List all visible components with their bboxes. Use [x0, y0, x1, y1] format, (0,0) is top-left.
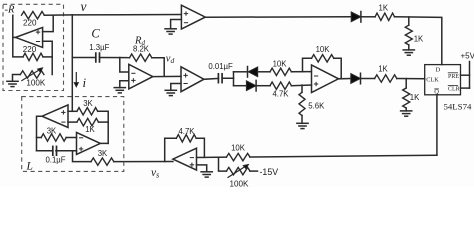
svg-text:-R: -R	[5, 5, 16, 16]
wire 1K pulldown D to ground	[408, 45, 410, 50]
wire U3 + input to ground	[120, 81, 129, 88]
svg-text:1K: 1K	[378, 65, 388, 74]
svg-text:-15V: -15V	[260, 167, 279, 177]
wire 220 bottom right lead	[43, 56, 52, 58]
wire 3K left to A4 - input	[66, 137, 76, 139]
wire +5V vertical	[469, 62, 471, 89]
svg-text:100K: 100K	[26, 78, 46, 87]
wire 4.7K to U5 + input	[291, 84, 311, 87]
wire top diode to 10K	[258, 71, 270, 73]
wire diode to 1K CLK row	[361, 78, 375, 80]
svg-text:10K: 10K	[316, 45, 331, 54]
op-amp U1 (-R block)	[16, 27, 43, 47]
resistor 3K (L left)	[41, 134, 66, 141]
diode D3 pointing right (CLK row)	[351, 74, 361, 84]
diode D4 pointing right (D row)	[351, 12, 361, 22]
ground U6 + input	[201, 171, 212, 173]
wire junction down to 1K pulldown D	[408, 17, 410, 25]
svg-text:L: L	[26, 161, 33, 173]
current arrow i	[75, 73, 77, 84]
svg-text:0.01µF: 0.01µF	[208, 62, 233, 71]
wire + node step down	[73, 151, 92, 162]
ground U3 + input	[114, 87, 125, 89]
resistor 3K (L top)	[77, 108, 98, 115]
wire U2 output row (D row)	[205, 16, 351, 18]
wire U1 output to feedback node	[13, 36, 16, 38]
ground CLK pulldown	[401, 110, 412, 112]
wire A4 output to bus	[100, 142, 108, 144]
svg-text:220: 220	[23, 45, 37, 54]
wire to top diode	[234, 71, 248, 73]
wire 4.7K down to - input	[196, 138, 204, 157]
wire U3 output to U4	[153, 75, 181, 77]
svg-text:1.3µF: 1.3µF	[89, 43, 109, 52]
wire U6 output to L block	[114, 161, 173, 163]
op-amp U5 comparator	[312, 65, 339, 93]
diode D2 pointing right	[246, 81, 256, 91]
capacitor 0.1uF	[52, 146, 54, 155]
op-amp U3 current sense	[129, 64, 153, 89]
wire v horizontal	[44, 14, 181, 17]
wire feedback bottom long	[250, 155, 437, 157]
resistor 220 top	[22, 12, 45, 19]
svg-text:CLK: CLK	[426, 76, 439, 83]
resistor 1K CLK row	[375, 75, 397, 82]
negative resistance block -R dashed box	[3, 4, 64, 90]
capacitor 0.01uF	[217, 74, 219, 83]
svg-text:+5V: +5V	[461, 52, 474, 61]
resistor 4.7K bottom limiter	[270, 82, 291, 89]
svg-text:4.7K: 4.7K	[178, 127, 195, 136]
wire U4 output	[204, 77, 219, 80]
wire - input stub	[43, 41, 53, 74]
wire capacitor to Rd node	[100, 57, 130, 59]
wire left vertical feedback	[13, 15, 23, 57]
resistor Rd 8.2K feedback	[130, 54, 152, 61]
wire 5.6K to ground	[301, 116, 303, 124]
flip-flop 54LS74 box	[425, 65, 461, 95]
ground pot (-R block)	[7, 80, 18, 82]
svg-text:5.6K: 5.6K	[308, 102, 325, 111]
resistor 10K feedback bottom	[226, 153, 250, 160]
svg-text:v: v	[81, 0, 87, 14]
resistor 1K D row	[375, 13, 394, 20]
wire - input drop	[120, 58, 129, 73]
wire feedback right down	[334, 58, 341, 78]
op-amp U4 buffer	[181, 67, 204, 92]
svg-text:i: i	[83, 75, 87, 90]
resistor 4.7K feedback U6	[176, 135, 196, 142]
resistor 1K pulldown CLK	[403, 88, 410, 108]
svg-text:4.7K: 4.7K	[272, 89, 289, 98]
svg-text:100K: 100K	[230, 179, 250, 187]
wire branch down to 100K pot	[219, 157, 227, 171]
resistor 10K feedback U5	[312, 55, 334, 62]
ground U2 - input	[165, 28, 176, 30]
wire A3 + input	[68, 110, 77, 112]
diode D1 pointing left	[247, 67, 249, 78]
wire U5 output	[339, 78, 351, 80]
svg-text:10K: 10K	[273, 59, 288, 68]
wire cap to A4 + input	[56, 150, 77, 152]
resistor 1K pulldown D	[405, 25, 412, 45]
resistor 10K top limiter	[270, 68, 291, 75]
svg-text:1K: 1K	[410, 93, 420, 102]
svg-text:vd: vd	[166, 54, 175, 66]
wire CLR stub	[461, 87, 470, 89]
svg-text:PRE: PRE	[448, 74, 459, 80]
wire to capacitor 0.1uF	[37, 150, 53, 152]
wire v branch vertical down	[71, 15, 73, 111]
svg-text:8.2K: 8.2K	[133, 45, 150, 54]
resistor 5.6K to ground	[299, 92, 305, 115]
ground U4 - input	[165, 89, 176, 91]
wire to capacitor C	[72, 57, 96, 59]
svg-text:CLR: CLR	[448, 87, 460, 93]
wire diode to 1K D row	[361, 16, 375, 18]
wire bottom diode branch	[234, 85, 247, 87]
wire 3K to bus	[98, 111, 109, 143]
wire + input branch down to 5.6K	[301, 85, 303, 92]
ground 5.6K	[297, 122, 308, 124]
wire feedback up left	[303, 58, 312, 71]
wire junction down to 1K pulldown CLK	[405, 79, 407, 88]
svg-text:54LS74: 54LS74	[444, 101, 472, 111]
op-amp A4 (L block bottom)	[77, 132, 101, 154]
potentiometer 100K (-R block)	[20, 71, 44, 78]
resistor 3K (L bottom out)	[91, 158, 114, 165]
svg-text:C: C	[91, 27, 100, 41]
wire pot left lead	[13, 75, 21, 82]
op-amp A3 (L block top)	[42, 105, 68, 128]
wire A3 - input	[68, 121, 77, 123]
wire A3 output down	[37, 116, 43, 151]
ground D pulldown	[403, 49, 414, 51]
svg-text:0.1µF: 0.1µF	[45, 155, 65, 164]
wire U6 + input to ground	[197, 165, 207, 172]
svg-text:D: D	[435, 67, 440, 74]
potentiometer 100K offset	[226, 167, 250, 174]
resistor 220 bottom	[23, 53, 43, 60]
wire feedback up	[165, 138, 177, 161]
wire U2 - input to ground	[171, 20, 182, 29]
wire 1K to bus	[99, 121, 109, 123]
wire 10K to vs amp - input	[197, 156, 227, 158]
wire PRE stub	[461, 74, 470, 76]
wire 1K pulldown to ground	[405, 108, 407, 111]
wire 1K to D pin corner	[395, 17, 442, 65]
resistor 1K (L block)	[77, 118, 99, 125]
svg-text:1K: 1K	[379, 4, 389, 13]
wire bottom diode to 4.7K	[257, 85, 270, 87]
svg-text:1K: 1K	[414, 35, 424, 44]
wire 1K to CLK pin	[397, 78, 425, 80]
svg-text:3K: 3K	[98, 149, 108, 158]
op-amp U2 top comparator	[181, 5, 205, 29]
wire Rd right lead down to output	[152, 58, 164, 77]
wire diode pair vertical connector	[233, 72, 235, 86]
inductor block L dashed box	[22, 97, 124, 172]
wire Qbar output down	[436, 95, 438, 155]
wire 10K to U5 - input	[291, 71, 311, 73]
op-amp U6 output inverter	[173, 148, 197, 170]
capacitor C 1.3uF	[95, 53, 97, 62]
svg-text:3K: 3K	[47, 127, 57, 136]
wire + input stub	[43, 15, 54, 31]
wire tap to 3K left	[37, 137, 42, 139]
wire U4 - input to ground	[171, 84, 181, 91]
svg-text:220: 220	[23, 19, 37, 28]
wire cap to diode pair	[222, 77, 233, 79]
svg-text:3K: 3K	[83, 99, 93, 108]
wire pot to -15V	[250, 170, 258, 172]
svg-text:1K: 1K	[85, 125, 95, 134]
svg-text:10K: 10K	[231, 144, 246, 153]
